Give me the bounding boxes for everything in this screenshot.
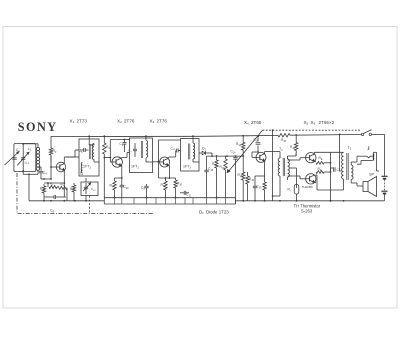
wire rail to T2 [339, 134, 341, 172]
wire osc box [85, 178, 87, 201]
chassis dash-dot boundary [17, 173, 153, 214]
T1 core [283, 158, 284, 176]
variable capacitor Ct-1b [17, 152, 29, 165]
svg-text:SONY: SONY [18, 120, 58, 134]
coupling capacitor C4 [39, 171, 48, 179]
resistor R1 emitter [40, 184, 46, 201]
wire X4 base [252, 151, 259, 157]
vertical supply x4 [272, 129, 274, 201]
wire X5 base [288, 158, 306, 160]
B+ dashed rail [263, 129, 361, 131]
wire X3 emitter [168, 165, 170, 178]
wire L1 tap to base [38, 167, 41, 171]
IFT1 primary coil [92, 144, 94, 160]
emitter resistor R17 [263, 176, 266, 201]
svg-text:2T73: 2T73 [77, 118, 88, 123]
gang stator wire [22, 143, 24, 172]
wire X1 emitter [63, 170, 65, 184]
wire det out [207, 153, 244, 157]
emitter resistor RE1 [315, 156, 331, 164]
resistor R7 [110, 178, 117, 198]
resistor R19 [290, 134, 298, 156]
wire emitter bus [44, 182, 64, 184]
wire X3 base [153, 161, 160, 163]
capacitor C15 [253, 184, 262, 201]
top rail to switch segment [372, 133, 385, 135]
tuning gang box [14, 144, 36, 172]
neutralizing capacitor C6 [120, 139, 127, 152]
wire X3 bias [158, 162, 175, 179]
svg-text:2T76: 2T76 [157, 118, 168, 123]
capacitor C13 [204, 156, 213, 198]
svg-text:X4: X4 [244, 120, 249, 126]
wire base feed [41, 167, 52, 180]
rail junction dots [43, 197, 344, 202]
volume potentiometer R13 [220, 156, 228, 198]
T2 core [347, 153, 348, 180]
caption TH Thermistor S-263 [294, 204, 321, 214]
wire X4 emitter [255, 161, 265, 184]
transistor X4 [256, 152, 266, 162]
label X1 2T73 [70, 118, 88, 124]
transistor X2 [112, 157, 122, 167]
svg-text:X3: X3 [150, 118, 155, 124]
thermistor box [288, 185, 299, 201]
T1 primary [278, 156, 280, 176]
svg-text:SP: SP [369, 173, 375, 177]
capacitor C11 [171, 146, 181, 152]
label 1FT2 [131, 165, 139, 170]
label X2 2T76 [117, 118, 135, 124]
output rail vertical [330, 152, 332, 201]
resistor R15 [238, 156, 245, 201]
wire X4 collector [265, 152, 280, 159]
wire X1 collector [64, 157, 79, 164]
label X4 2T65 [244, 120, 262, 126]
emitter resistor RE2 [315, 167, 331, 183]
transistor X1 [56, 162, 66, 172]
wire X3 collector [168, 151, 176, 159]
wire antenna box top [23, 144, 38, 148]
stage wire X2 [104, 140, 129, 163]
label Lt-1 [25, 160, 30, 165]
T2 primary [342, 152, 344, 179]
AGC resistor R14 [236, 135, 245, 157]
capacitor C12 [180, 191, 192, 198]
IFT2 box [130, 138, 153, 173]
wire R7 top [115, 177, 123, 179]
svg-text:S-263: S-263 [301, 209, 313, 214]
diode D1 [199, 147, 212, 155]
wire T1 sec taps [289, 168, 296, 188]
wire antenna box bottom [23, 170, 38, 200]
T2 center tap [340, 170, 344, 172]
label 1FT3 [183, 165, 191, 170]
SONY logo [18, 120, 58, 134]
resistor R3 [103, 135, 111, 204]
IFT3 coil [193, 143, 195, 159]
wire T1 sec top [288, 153, 296, 159]
label L1 [28, 147, 32, 152]
capacitor C9 [141, 184, 149, 198]
T2 secondary [351, 162, 353, 183]
driver transformer T1 label [279, 147, 283, 152]
label C7 [128, 149, 132, 154]
resistor R2 [49, 136, 57, 162]
wire X6 collector [315, 175, 342, 190]
wire IFT1 connections [66, 135, 99, 162]
label X3 2T76 [150, 118, 168, 124]
output transformer T2 label [348, 146, 352, 151]
label SP [369, 173, 375, 177]
label Ct-2 [91, 187, 96, 192]
battery B2 [381, 191, 387, 201]
IFT2 core [141, 141, 142, 158]
wire osc feedback [63, 183, 65, 197]
wire T2 primary bottom [342, 179, 344, 190]
capacitor C5 [79, 148, 89, 154]
svg-text:X6: X6 [311, 120, 316, 126]
ground ticks [115, 198, 226, 204]
label Ca [16, 148, 20, 153]
battery link dashed [384, 180, 386, 191]
label thermistor ref [302, 185, 313, 189]
label X5 X6 2T65x2 [304, 120, 335, 126]
IFT2 coil [146, 141, 148, 158]
resistor R4 [47, 182, 57, 189]
transistor X5 [306, 153, 316, 163]
gang dashed link [89, 196, 91, 214]
wire speaker return [374, 152, 380, 171]
variable capacitor Ct-1a [5, 152, 19, 165]
wire X6 base [288, 176, 306, 179]
svg-text:X1: X1 [70, 118, 75, 124]
wire X2 collector [121, 153, 130, 159]
resistor R6 [70, 183, 76, 201]
jack J [351, 153, 373, 164]
oscillator coil L4 [81, 163, 82, 173]
T1 secondary [288, 156, 290, 180]
top supply rail [51, 135, 362, 137]
pot wiper diagonal [227, 130, 262, 172]
transistor X6 [306, 174, 316, 184]
switch SW [361, 130, 371, 136]
svg-text:2T65×2: 2T65×2 [319, 120, 335, 125]
IFT3 box [181, 139, 200, 172]
wire X5 collector [315, 152, 342, 154]
svg-text:2T76: 2T76 [124, 118, 135, 123]
module box bottom [104, 198, 235, 204]
capacitor C20 [331, 167, 343, 173]
wire T1 primary bottom [273, 176, 280, 196]
resistor R5 [57, 182, 67, 201]
resistor R16 [246, 172, 255, 201]
IFT3 core [189, 144, 190, 160]
wire IFT2 sec [145, 135, 152, 162]
bottom common rail [29, 200, 385, 202]
svg-text:TH12B9: TH12B9 [302, 185, 313, 189]
label L4 [80, 172, 84, 177]
inner ground rail [104, 197, 235, 199]
speaker SP [363, 177, 377, 197]
battery B1 [381, 134, 387, 178]
IFT1 box [79, 139, 99, 176]
coupling capacitor C16 [254, 135, 261, 152]
wire jack to speaker [351, 183, 363, 186]
variable capacitor Ct-2 [83, 183, 91, 194]
resistor R10 [174, 178, 183, 198]
caption D1 Diode 1T23 [199, 209, 229, 215]
wire X2 emitter [120, 165, 122, 180]
resistor R18 in rail [278, 134, 290, 143]
svg-text:Diode 1T23: Diode 1T23 [206, 209, 229, 214]
IFT1 core [90, 144, 91, 159]
wire IFT3 [192, 135, 199, 162]
IFT2 tuning cap [133, 143, 146, 157]
capacitor C10 [120, 180, 130, 198]
oscillator tuning box Ct-2 [81, 182, 98, 196]
wire X2 base [110, 161, 112, 163]
svg-text:2T65: 2T65 [251, 120, 262, 125]
antenna coil L1 [36, 147, 39, 170]
svg-text:D1: D1 [199, 209, 204, 215]
label 1FT1 [83, 165, 91, 170]
resistor R11 [212, 155, 218, 198]
transistor X3 [160, 157, 170, 167]
svg-text:X5: X5 [304, 120, 309, 126]
wire R2 to base [50, 155, 56, 168]
svg-text:X2: X2 [117, 118, 122, 124]
resistor R9 [161, 178, 168, 198]
capacitor C8 [44, 195, 66, 213]
stage wire X3 [158, 140, 181, 163]
AGC capacitor C14 [231, 150, 238, 205]
jack J label [367, 147, 370, 152]
